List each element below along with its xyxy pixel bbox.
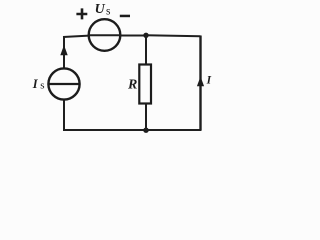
resistor R: [139, 65, 151, 104]
arrow current direction of I: [197, 77, 204, 87]
svg-text:s: s: [40, 79, 44, 91]
svg-text:I: I: [206, 75, 212, 87]
wire middle branch lower: [145, 104, 147, 131]
voltage source U_s: [89, 19, 121, 51]
node top junction: [143, 33, 148, 38]
svg-text:R: R: [127, 78, 137, 93]
wire left branch lower: [63, 100, 65, 131]
wire top rail middle segment: [121, 35, 147, 37]
wire left branch upper: [63, 36, 65, 69]
node bottom junction: [143, 128, 148, 133]
label - (voltage source polarity): [120, 15, 130, 18]
label + (voltage source polarity): [76, 8, 87, 19]
wire bottom rail left segment: [63, 129, 146, 131]
wire bottom rail right segment: [146, 129, 202, 131]
wire top rail left segment: [63, 36, 89, 37]
wire middle branch upper: [145, 36, 147, 65]
wire top rail right segment: [146, 35, 201, 36]
wire right branch: [199, 36, 201, 131]
svg-text:U: U: [95, 2, 106, 17]
arrow current direction of Is: [60, 45, 67, 55]
current source Is: [48, 68, 79, 99]
svg-text:s: s: [106, 6, 111, 18]
